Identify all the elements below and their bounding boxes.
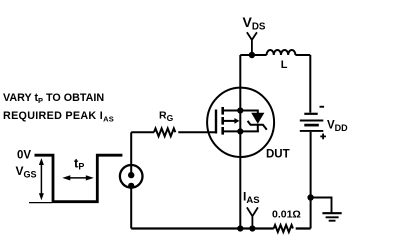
svg-text:L: L bbox=[281, 59, 288, 71]
svg-text:DUT: DUT bbox=[266, 149, 290, 161]
svg-text:0V: 0V bbox=[17, 150, 31, 162]
svg-text:VARY tP TO OBTAIN: VARY tP TO OBTAIN bbox=[3, 92, 104, 105]
svg-text:0.01Ω: 0.01Ω bbox=[272, 209, 301, 221]
svg-text:REQUIRED PEAK IAS: REQUIRED PEAK IAS bbox=[3, 110, 114, 124]
